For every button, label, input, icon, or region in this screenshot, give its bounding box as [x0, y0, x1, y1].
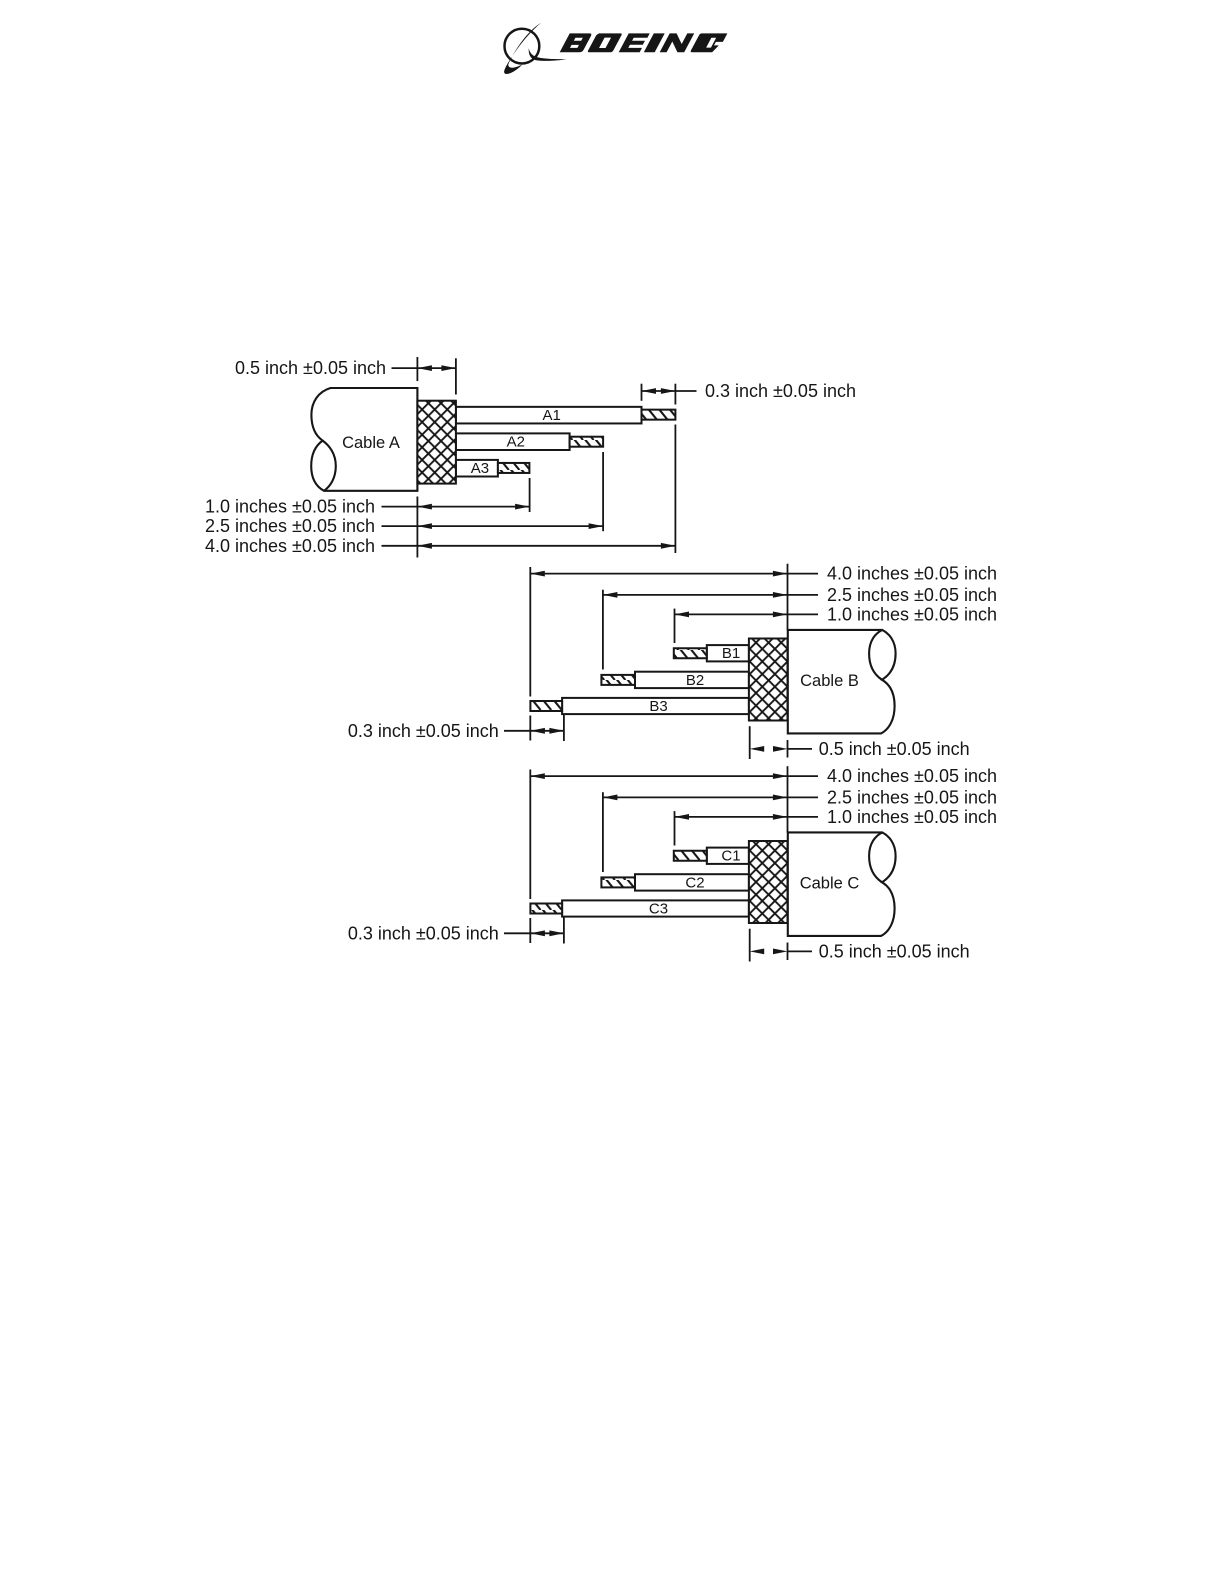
dimension 4.0 inches (wire B3 length)	[530, 564, 997, 741]
dimension 2.5 inches (wire A2 length)	[205, 452, 603, 536]
wire C2	[635, 874, 749, 890]
svg-text:0.5 inch ±0.05 inch: 0.5 inch ±0.05 inch	[819, 739, 970, 759]
svg-text:1.0 inches ±0.05 inch: 1.0 inches ±0.05 inch	[205, 497, 375, 517]
svg-text:1.0 inches ±0.05 inch: 1.0 inches ±0.05 inch	[827, 807, 997, 827]
svg-text:C2: C2	[685, 874, 704, 891]
cable B body with break symbol	[788, 630, 896, 734]
wire A3	[456, 460, 498, 477]
svg-text:2.5 inches ±0.05 inch: 2.5 inches ±0.05 inch	[827, 585, 997, 605]
svg-text:0.3 inch ±0.05 inch: 0.3 inch ±0.05 inch	[348, 923, 499, 943]
dimension 1.0 inches (wire C1 length)	[675, 807, 998, 846]
svg-text:A3: A3	[471, 460, 489, 477]
wire A1	[456, 407, 642, 424]
cable A exposed braid (crosshatch)	[417, 401, 456, 484]
dimension 2.5 inches (wire B2 length)	[603, 585, 997, 670]
wire A2	[456, 433, 570, 450]
wire A1 stripped tip	[642, 410, 676, 420]
dimension 0.5 inch (cable B jacket strip)	[750, 726, 970, 759]
svg-text:2.5 inches ±0.05 inch: 2.5 inches ±0.05 inch	[205, 516, 375, 536]
dimension 0.5 inch (cable C jacket strip)	[750, 929, 970, 962]
dimension 0.3 inch (wire C3 tip)	[348, 917, 564, 944]
dimension 0.3 inch (wire A1 tip)	[642, 381, 856, 553]
svg-text:Cable C: Cable C	[800, 875, 860, 893]
cable A body with break symbol	[311, 388, 417, 491]
dimension 0.3 inch (wire B3 tip)	[348, 714, 564, 741]
wire C3 stripped tip	[530, 904, 562, 914]
dimension 1.0 inches (wire A3 length)	[205, 478, 530, 517]
svg-text:Cable B: Cable B	[800, 672, 859, 690]
dimension 1.0 inches (wire B1 length)	[675, 604, 998, 643]
wire C1 stripped tip	[674, 851, 707, 861]
dimension 0.5 inch (cable A jacket strip)	[235, 357, 456, 395]
cable C body with break symbol	[788, 832, 896, 936]
svg-text:B2: B2	[686, 672, 704, 689]
svg-text:A2: A2	[507, 433, 525, 450]
wire B1 stripped tip	[674, 648, 707, 658]
wire A3 stripped tip	[498, 463, 530, 473]
extension line below cable A jacket edge	[416, 497, 418, 558]
dimension 4.0 inches (wire A1 length)	[205, 536, 675, 556]
svg-text:4.0 inches ±0.05 inch: 4.0 inches ±0.05 inch	[827, 766, 997, 786]
wire C3	[562, 900, 749, 916]
svg-text:Cable A: Cable A	[342, 434, 400, 452]
Boeing logo symbol: orbit swoosh	[504, 23, 541, 74]
wire B2	[635, 672, 749, 688]
Boeing logo symbol: wing spike	[529, 48, 567, 61]
dimension 2.5 inches (wire C2 length)	[603, 787, 997, 872]
svg-text:0.3 inch ±0.05 inch: 0.3 inch ±0.05 inch	[348, 721, 499, 741]
svg-text:C1: C1	[721, 848, 740, 865]
svg-text:1.0 inches ±0.05 inch: 1.0 inches ±0.05 inch	[827, 604, 997, 624]
svg-text:4.0 inches ±0.05 inch: 4.0 inches ±0.05 inch	[827, 564, 997, 584]
svg-text:0.5 inch ±0.05 inch: 0.5 inch ±0.05 inch	[819, 941, 970, 961]
cable C break lens inner arc	[869, 832, 882, 882]
wire B3 stripped tip	[530, 701, 562, 711]
wire B1	[707, 645, 749, 661]
extension line above cable B jacket edge	[787, 564, 789, 630]
svg-text:B3: B3	[649, 698, 667, 715]
svg-text:0.5 inch ±0.05 inch: 0.5 inch ±0.05 inch	[235, 358, 386, 378]
wire C2 stripped tip	[601, 877, 635, 887]
Boeing logo wordmark BOEING	[560, 33, 728, 52]
svg-text:A1: A1	[543, 407, 561, 424]
svg-text:B1: B1	[722, 645, 740, 662]
wire A2 stripped tip	[570, 437, 604, 447]
extension line above cable C jacket edge	[787, 766, 789, 832]
Boeing logo symbol: globe circle	[505, 29, 540, 64]
wire C1	[707, 848, 749, 864]
svg-text:C3: C3	[649, 900, 668, 917]
svg-text:0.3 inch ±0.05 inch: 0.3 inch ±0.05 inch	[705, 381, 856, 401]
wire B3	[562, 698, 749, 714]
cable B break lens inner arc	[869, 630, 882, 680]
svg-text:2.5 inches ±0.05 inch: 2.5 inches ±0.05 inch	[827, 787, 997, 807]
cable B exposed braid (crosshatch)	[749, 639, 788, 721]
cable A break lens inner arc	[323, 441, 336, 491]
wire B2 stripped tip	[601, 675, 635, 685]
dimension 4.0 inches (wire C3 length)	[530, 766, 997, 943]
cable C exposed braid (crosshatch)	[749, 841, 788, 923]
svg-text:4.0 inches ±0.05 inch: 4.0 inches ±0.05 inch	[205, 536, 375, 556]
